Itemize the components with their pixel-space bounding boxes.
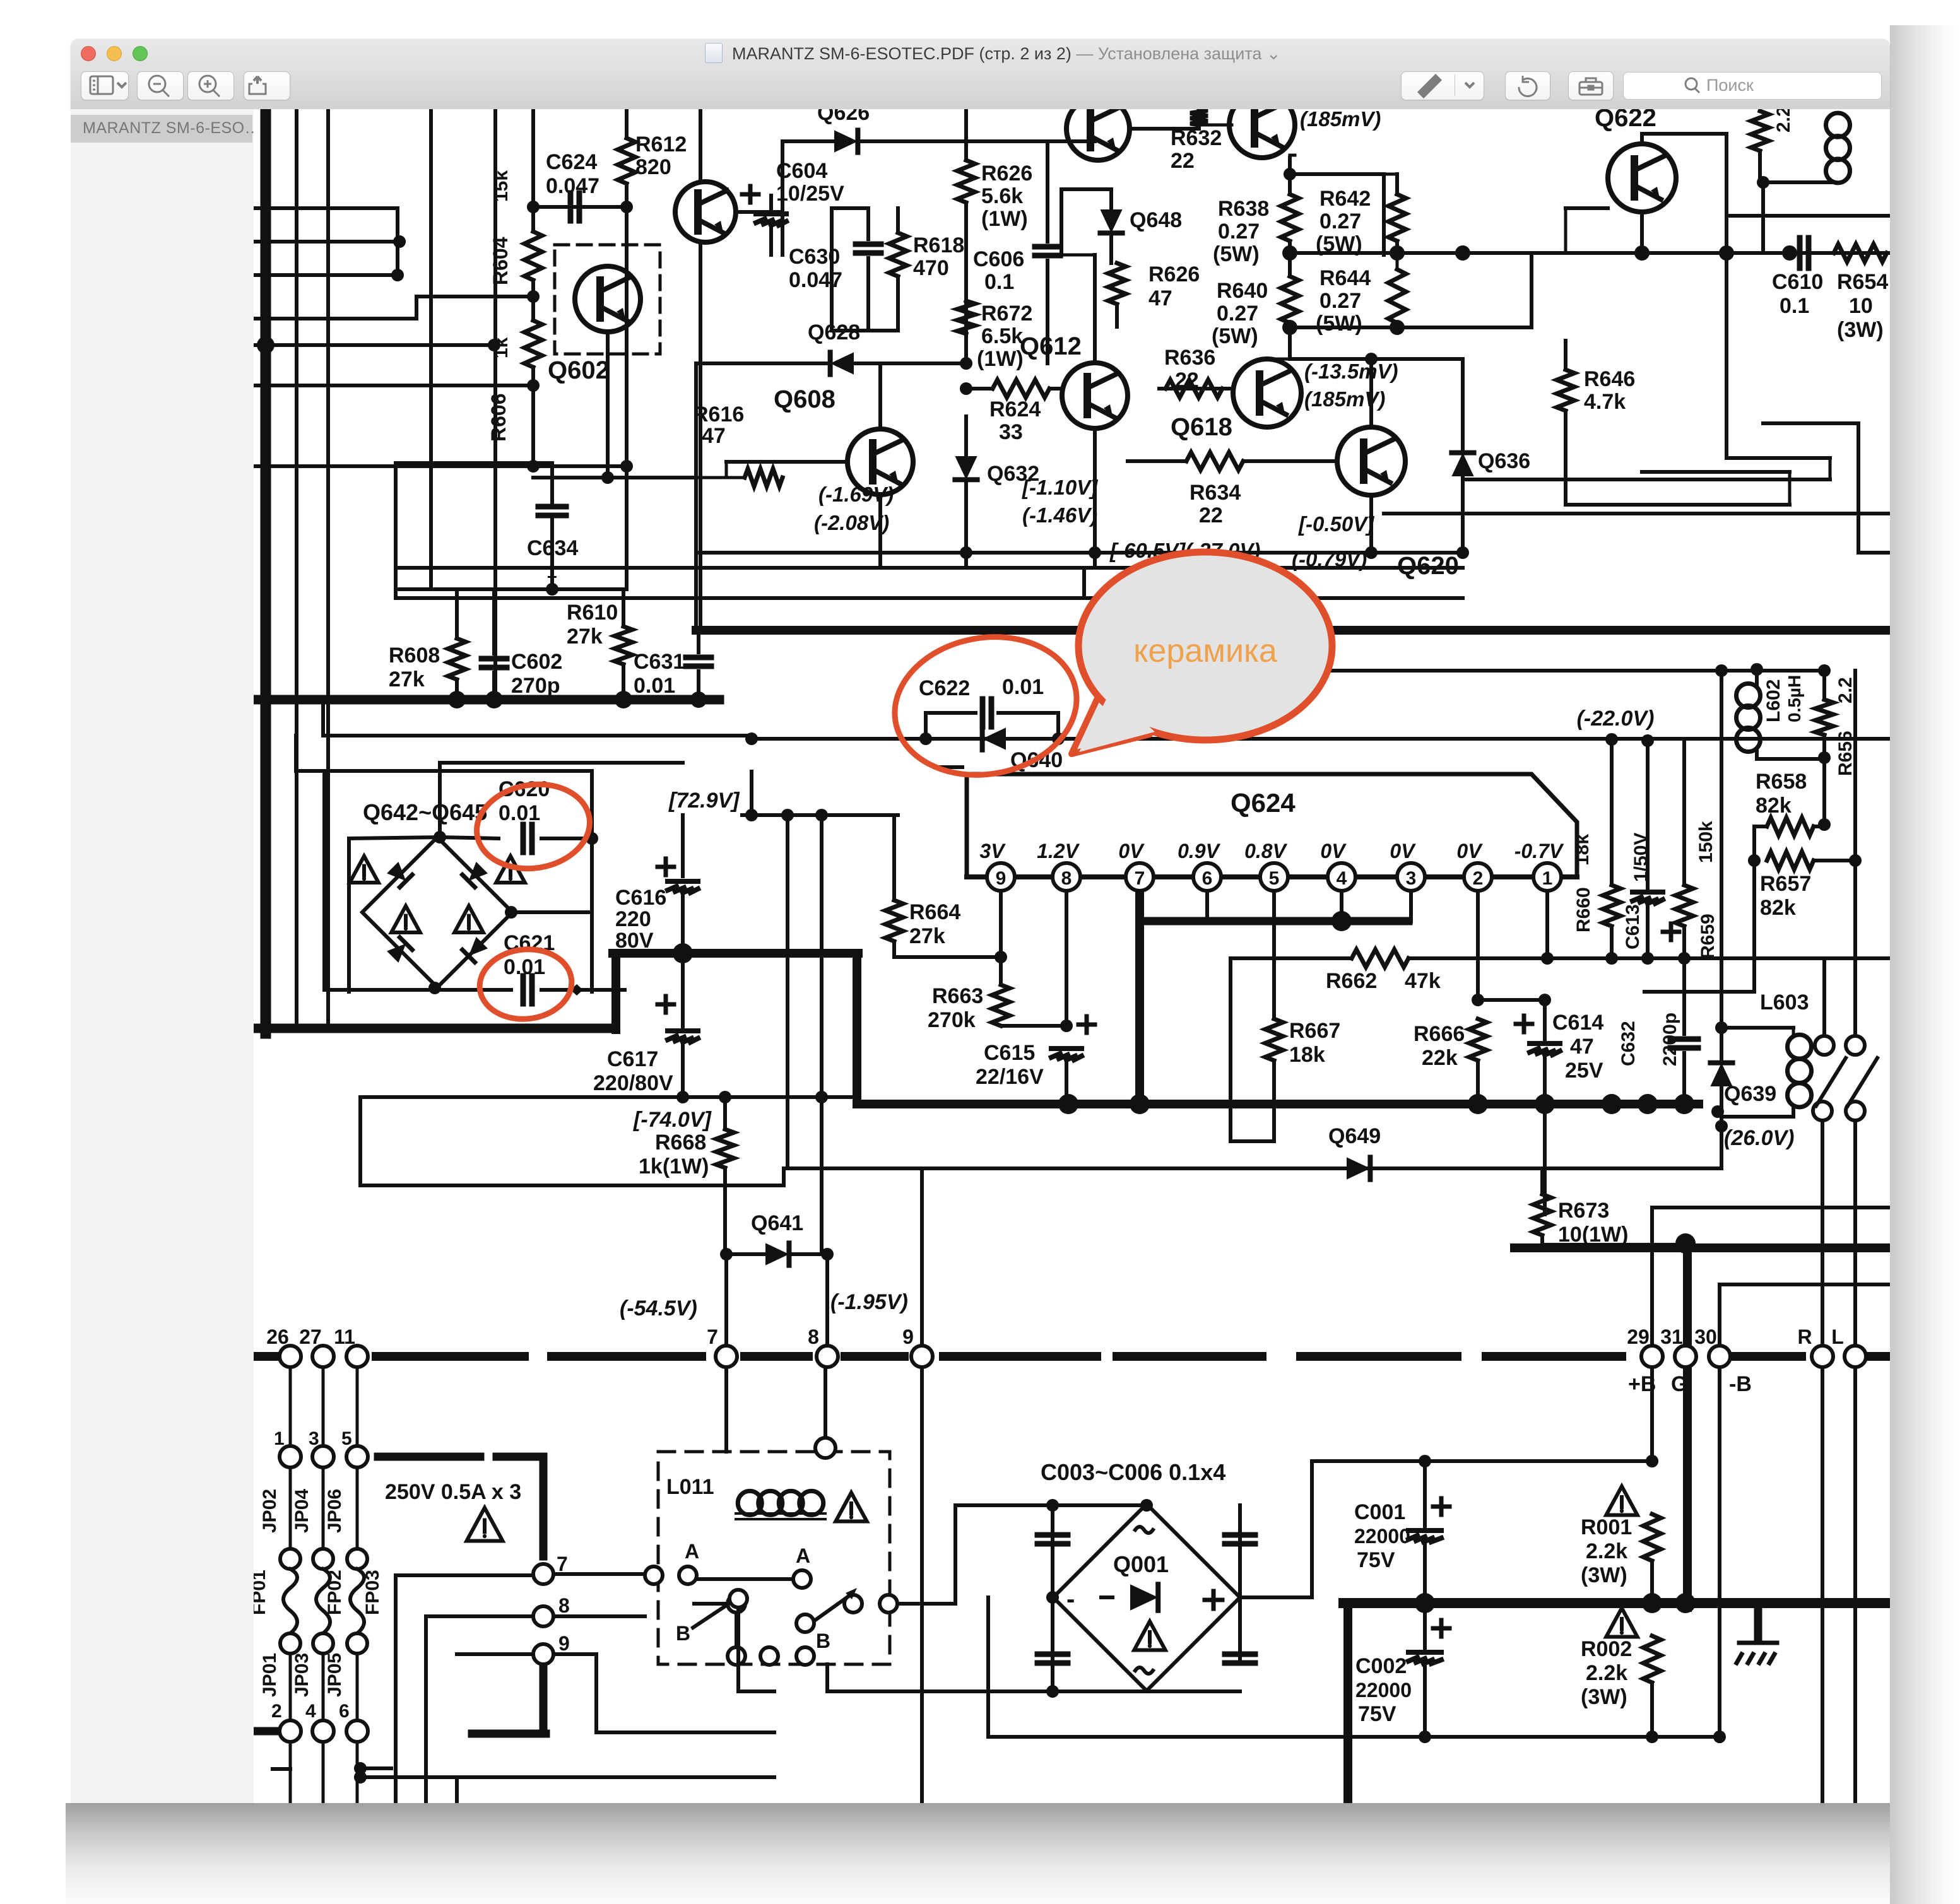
svg-text:47: 47 xyxy=(1148,286,1172,310)
wire Q632 top xyxy=(964,416,968,456)
svg-text:R642: R642 xyxy=(1319,187,1371,211)
wire pin8 down xyxy=(1065,891,1068,1026)
wire y948 xyxy=(396,596,1463,600)
wire R634 right xyxy=(1243,459,1337,463)
diode Q632 xyxy=(955,456,977,479)
svg-text:33: 33 xyxy=(999,420,1023,444)
capacitor C631 xyxy=(686,657,711,666)
wire C606 bottom xyxy=(1046,261,1049,363)
wire C604 top xyxy=(769,196,773,213)
svg-text:R672: R672 xyxy=(981,302,1032,326)
svg-text:-B: -B xyxy=(1729,1372,1752,1396)
svg-text:G: G xyxy=(1671,1372,1687,1396)
op-amp U1 Q624 hybrid IC xyxy=(967,774,1577,877)
wire Q632 bottom xyxy=(964,479,968,568)
svg-text:27k: 27k xyxy=(389,667,425,691)
pin 1 of Q624 xyxy=(1533,863,1561,891)
svg-text:Q649: Q649 xyxy=(1328,1124,1381,1148)
toolbar zoom-in button xyxy=(187,71,234,100)
svg-text:A: A xyxy=(685,1540,699,1563)
wire pin7 row xyxy=(396,1573,533,1577)
wire R668 bottom xyxy=(723,1168,727,1254)
svg-text:8: 8 xyxy=(558,1594,570,1617)
svg-text:[-1.10V]: [-1.10V] xyxy=(1022,476,1098,499)
svg-text:R626: R626 xyxy=(981,162,1032,185)
svg-text:(1W): (1W) xyxy=(981,207,1028,231)
wire v1566 xyxy=(986,1597,990,1737)
transistor Q602 xyxy=(555,245,660,354)
node connector pin 27 xyxy=(312,1346,334,1367)
svg-text:R657: R657 xyxy=(1760,872,1811,896)
wire C622 left xyxy=(926,711,976,715)
svg-text:Q636: Q636 xyxy=(1478,449,1530,473)
wire C006 col mid xyxy=(1238,1597,1242,1659)
wire R662 left xyxy=(1231,956,1352,960)
wire h1 drop xyxy=(396,208,399,275)
svg-text:(-1.46V): (-1.46V) xyxy=(1022,503,1097,527)
wire T1 collector xyxy=(699,109,702,182)
wire pin9 row right xyxy=(553,1652,596,1656)
svg-text:C001: C001 xyxy=(1354,1500,1405,1524)
wire v1682 xyxy=(1060,189,1063,255)
svg-text:4: 4 xyxy=(305,1701,316,1722)
svg-text:R638: R638 xyxy=(1218,197,1269,221)
wire C001 bottom xyxy=(1423,1542,1427,1603)
inductor L603 xyxy=(1788,1035,1812,1107)
svg-text:18k: 18k xyxy=(1572,834,1593,866)
capacitor C005 xyxy=(1037,1654,1068,1663)
minus lead xyxy=(1101,1595,1113,1599)
wire y1809 xyxy=(1231,1139,1274,1143)
wire v1514 xyxy=(953,1505,957,1604)
svg-text:C617: C617 xyxy=(607,1047,658,1071)
wire stub xyxy=(321,700,325,736)
traffic light close xyxy=(81,46,96,61)
wire C002 top xyxy=(1423,1603,1427,1648)
wire v627 xyxy=(394,463,398,598)
fuse FP x512 xyxy=(316,1569,330,1633)
wire pin4 down xyxy=(1340,891,1343,921)
wire y342 xyxy=(1727,214,1890,218)
wire R606 bottom xyxy=(531,367,535,466)
wire R634 left xyxy=(1128,459,1186,463)
wire R626b bottom xyxy=(1115,304,1119,327)
switch blade 1 xyxy=(1816,1058,1846,1106)
svg-text:C602: C602 xyxy=(511,650,562,674)
svg-text:27: 27 xyxy=(299,1325,322,1348)
resistor R656 xyxy=(1815,700,1833,735)
wire Q628 right xyxy=(854,361,966,365)
svg-text:0V: 0V xyxy=(1390,840,1416,862)
wire Q639 bottom xyxy=(1720,1082,1723,1126)
svg-text:-: - xyxy=(1066,1585,1075,1613)
node pin 8 lower xyxy=(533,1606,553,1626)
wire pin9L top xyxy=(920,1168,924,1346)
svg-text:8: 8 xyxy=(1061,868,1072,889)
svg-text:270k: 270k xyxy=(928,1008,976,1032)
svg-text:(5W): (5W) xyxy=(1213,242,1260,266)
svg-text:Q608: Q608 xyxy=(774,385,835,413)
minus mark xyxy=(939,765,962,769)
resistor R608 xyxy=(448,638,466,679)
pin 5 of Q624 xyxy=(1260,863,1288,891)
wire y524 xyxy=(832,329,898,332)
wire col x460 a xyxy=(289,1367,292,1446)
wire R666 bottom xyxy=(1476,1061,1480,1104)
wire y2817 long xyxy=(360,1775,774,1779)
svg-text:0.047: 0.047 xyxy=(546,174,599,198)
resistor R644 xyxy=(1388,269,1406,323)
pin 6 of Q624 xyxy=(1193,863,1221,891)
resistor R618 xyxy=(889,233,907,276)
wire C006 col top xyxy=(1238,1505,1242,1597)
wire C617 bottom xyxy=(681,1042,685,1097)
svg-text:5: 5 xyxy=(1269,868,1280,889)
wire Q628 left xyxy=(696,361,826,365)
capacitor C621 xyxy=(523,976,532,1004)
wire v724 low xyxy=(455,1777,459,1803)
wire swr bottom xyxy=(738,1690,774,1693)
switch blade left xyxy=(811,1596,849,1623)
wire R646 bottom xyxy=(1564,411,1567,505)
svg-text:R664: R664 xyxy=(909,900,960,924)
wire bridge out right xyxy=(1240,1595,1312,1599)
wire base runback xyxy=(254,317,416,320)
wire join left xyxy=(394,568,398,598)
wire sw2 down xyxy=(1853,1120,1857,1356)
diode Q636 xyxy=(1451,453,1473,476)
svg-text:A: A xyxy=(796,1544,810,1567)
wire jog xyxy=(750,736,753,739)
wire col x460 c xyxy=(289,1654,292,1720)
svg-text:R662: R662 xyxy=(1326,969,1377,993)
svg-text:47: 47 xyxy=(1570,1035,1594,1059)
transistor Q608 xyxy=(847,429,913,495)
wire thick bus mid-left horizontal xyxy=(254,695,719,705)
wire y1063 xyxy=(1111,669,1827,673)
wire R657 left xyxy=(1752,826,1756,861)
svg-text:Q642~Q645: Q642~Q645 xyxy=(363,799,487,825)
svg-text:22: 22 xyxy=(1175,368,1199,392)
wire thick bottom-mid horizontal xyxy=(857,1100,1699,1108)
wire R659 top xyxy=(1682,739,1686,885)
wire y2036 xyxy=(1720,1283,1890,1286)
wire R667 bottom xyxy=(1272,1061,1276,1141)
wire L603 bottom xyxy=(1792,1107,1795,1117)
pin 3 of Q624 xyxy=(1397,863,1425,891)
capacitor C604 xyxy=(756,214,786,225)
wire col x512 c xyxy=(322,1654,325,1720)
svg-text:R660: R660 xyxy=(1573,887,1594,932)
wire v2940 mid xyxy=(1853,861,1857,958)
wire Q626 right xyxy=(858,139,1048,143)
capacitor C002 xyxy=(1408,1652,1441,1664)
sidebar xyxy=(71,109,254,1803)
svg-text:R673: R673 xyxy=(1558,1199,1609,1223)
svg-text:R668: R668 xyxy=(655,1131,706,1155)
wire pin7L drop xyxy=(724,1367,728,1452)
svg-text:(-1.95V): (-1.95V) xyxy=(830,1290,908,1314)
svg-text:1.2V: 1.2V xyxy=(1037,840,1080,862)
wire v2728 xyxy=(1720,671,1723,1028)
svg-text:керамика: керамика xyxy=(1133,633,1277,669)
resistor R659 xyxy=(1675,885,1693,926)
svg-text:0V: 0V xyxy=(1320,840,1347,862)
wire thick left vertical bus xyxy=(261,109,271,1033)
resistor R632 xyxy=(1190,109,1208,125)
wire Q648 bottom xyxy=(1109,233,1113,263)
wire v627 low xyxy=(394,1575,398,1803)
svg-text:R624: R624 xyxy=(989,397,1041,421)
inductor L602 xyxy=(1737,684,1761,752)
macOS Preview title bar xyxy=(71,39,1890,110)
wire col x566 b xyxy=(356,1467,359,1549)
resistor R663 xyxy=(992,985,1010,1026)
svg-text:R663: R663 xyxy=(932,984,983,1008)
svg-text:(5W): (5W) xyxy=(1316,312,1362,336)
wire C622 right xyxy=(998,711,1058,715)
rectifier bridge Q642~Q645 xyxy=(362,837,512,987)
svg-text:0V: 0V xyxy=(1456,840,1483,862)
wire C634 bottom xyxy=(550,520,554,589)
wire v675 low xyxy=(424,1616,428,1803)
toolbar sidebar button xyxy=(81,71,129,100)
wire y1572 xyxy=(1644,990,1754,994)
wire Q608 emitter down xyxy=(878,495,882,568)
wire y2753 xyxy=(988,1735,1720,1739)
svg-text:(-2.08V): (-2.08V) xyxy=(814,511,889,534)
capacitor C004 xyxy=(1225,1535,1255,1544)
svg-text:0.1: 0.1 xyxy=(1780,294,1809,318)
resistor R634 xyxy=(1186,452,1243,470)
wire C002 bottom xyxy=(1423,1664,1427,1737)
wire vertical col2 xyxy=(326,109,330,1028)
capacitor C602 xyxy=(481,659,507,667)
wire bridge top left xyxy=(349,837,440,838)
svg-text:JP03: JP03 xyxy=(292,1653,312,1697)
wire Q608 collector xyxy=(878,363,882,429)
wire T2 right xyxy=(1130,127,1199,131)
svg-text:(5W): (5W) xyxy=(1316,232,1362,256)
svg-text:9: 9 xyxy=(558,1632,570,1655)
wire C621 out xyxy=(583,988,625,992)
svg-text:(3W): (3W) xyxy=(1837,318,1884,342)
svg-text:R632: R632 xyxy=(1171,126,1222,150)
transistor T3 top xyxy=(1229,92,1295,158)
svg-text:R610: R610 xyxy=(567,601,618,625)
resistor R666 xyxy=(1469,1019,1487,1061)
wire C630 top xyxy=(866,208,870,239)
dashed box L011 xyxy=(658,1452,890,1664)
svg-text:Q624: Q624 xyxy=(1231,788,1296,818)
switch blade 2 xyxy=(1848,1058,1877,1106)
resistor R640 xyxy=(1281,276,1299,323)
svg-text:2.2: 2.2 xyxy=(1835,677,1856,703)
annotation red ellipse around C620 xyxy=(471,777,596,877)
wire C622 right drop xyxy=(1056,713,1060,739)
wire sw2 top xyxy=(1853,958,1857,1036)
toolbar markup combo button xyxy=(1401,71,1484,100)
svg-text:75V: 75V xyxy=(1357,1548,1395,1572)
wire thick drop xyxy=(853,953,861,1104)
svg-text:C002: C002 xyxy=(1355,1654,1407,1678)
wire R001 bottom xyxy=(1650,1561,1654,1603)
wire L011 right down xyxy=(825,1664,829,1691)
wire v1950 xyxy=(1229,958,1232,1141)
core line1 xyxy=(736,1512,825,1515)
svg-text:(-0.79V): (-0.79V) xyxy=(1292,548,1367,571)
wire L603 top xyxy=(1721,1026,1793,1030)
svg-text:R666: R666 xyxy=(1414,1022,1465,1046)
wire y2681 xyxy=(827,1690,1240,1693)
wire thick ground bus xyxy=(1343,1598,1890,1608)
wire C631 bottom xyxy=(697,671,700,700)
wire R660 bottom xyxy=(1610,926,1614,958)
wire v2780 xyxy=(1752,861,1756,992)
svg-text:150k: 150k xyxy=(1696,821,1716,863)
wire jp stub2 xyxy=(360,1766,391,1770)
svg-text:0V: 0V xyxy=(1118,840,1145,862)
wire C602 top xyxy=(492,589,496,654)
wire v1302 xyxy=(820,815,824,1254)
diode inside Q001 xyxy=(1130,1584,1158,1611)
svg-text:[-0.50V]: [-0.50V] xyxy=(1298,512,1374,536)
wire Q612 collector xyxy=(1093,255,1097,363)
svg-text:C634: C634 xyxy=(527,536,578,560)
svg-text:R634: R634 xyxy=(1190,481,1241,505)
wire Q648 top xyxy=(1109,189,1113,209)
resistor R672 xyxy=(957,301,975,334)
wire C630 link xyxy=(832,206,868,210)
svg-text:[-74.0V]: [-74.0V] xyxy=(633,1108,712,1132)
window bottom drop shadow xyxy=(66,1803,1890,1904)
svg-text:Q612: Q612 xyxy=(1020,332,1082,360)
svg-text:0.5µH: 0.5µH xyxy=(1785,675,1804,722)
resistor R664 xyxy=(885,900,903,941)
toolbar icons svg overlay xyxy=(0,0,1960,126)
resistor R606 xyxy=(524,320,542,367)
wire y748 xyxy=(1642,470,1790,474)
wire C001 top xyxy=(1423,1461,1427,1526)
wire Q602 emitter xyxy=(606,332,610,478)
wire emitter row xyxy=(533,476,696,479)
wire h3 xyxy=(254,273,398,277)
svg-text:B: B xyxy=(816,1630,830,1652)
wire vertical col1 xyxy=(295,109,298,1028)
wire h4 xyxy=(254,343,494,347)
wire swr down xyxy=(736,1607,740,1691)
ground symbol xyxy=(1737,1643,1777,1663)
node connector pin R xyxy=(1812,1346,1833,1367)
svg-text:L011: L011 xyxy=(666,1475,714,1499)
wire h1 xyxy=(254,206,398,210)
wire step xyxy=(1727,456,1830,460)
wire jp stub xyxy=(273,1767,290,1771)
diode Q641 xyxy=(765,1243,789,1265)
node connector pin 9 xyxy=(911,1346,933,1367)
wire y934 xyxy=(431,587,627,591)
wire C632 top xyxy=(1682,958,1686,1034)
wire v2427 xyxy=(1530,255,1533,327)
wire R657 right xyxy=(1814,859,1855,862)
annotation red ellipse around C622/Q640 xyxy=(883,623,1087,789)
resistor R002 xyxy=(1643,1636,1661,1683)
svg-text:[72.9V]: [72.9V] xyxy=(668,789,740,813)
pin 2 of Q624 xyxy=(1464,863,1492,891)
capacitor C606 xyxy=(1035,247,1060,256)
wire Q612 emitter xyxy=(1093,428,1097,568)
wire R642 bottom xyxy=(1395,241,1399,253)
resistor R642 xyxy=(1388,194,1406,241)
wire L down xyxy=(1853,1367,1857,1803)
wire R624 right xyxy=(1049,387,1062,391)
wire C615 bottom xyxy=(1065,1060,1068,1104)
svg-text:2: 2 xyxy=(271,1701,282,1722)
inductor L601 xyxy=(1826,113,1850,183)
wire pin8L drop xyxy=(824,1367,827,1438)
wire R604-R606 link xyxy=(531,280,535,320)
node pin 7 lower xyxy=(533,1564,553,1584)
wire y900 xyxy=(396,566,1084,570)
wire col x512 a xyxy=(322,1367,325,1446)
svg-text:(-13.5mV): (-13.5mV) xyxy=(1304,360,1398,383)
capacitor C617 xyxy=(668,1031,698,1042)
wire y1914 xyxy=(1652,1206,1890,1209)
wire contact link xyxy=(735,1613,738,1647)
pin 8 of Q624 xyxy=(1053,863,1080,891)
svg-text:C606: C606 xyxy=(973,247,1024,271)
svg-text:R654: R654 xyxy=(1837,270,1888,294)
switch contact B left xyxy=(796,1614,814,1632)
svg-text:FP02: FP02 xyxy=(324,1570,345,1615)
svg-text:C631: C631 xyxy=(634,650,685,674)
node connector pin 26 xyxy=(280,1346,301,1367)
wire R658 left xyxy=(1754,825,1767,828)
wire step2 xyxy=(1763,421,1858,425)
wire Q636 top xyxy=(1461,359,1465,449)
wire h2 xyxy=(254,240,399,244)
svg-text:6.5k: 6.5k xyxy=(981,324,1023,348)
wire y2746 xyxy=(596,1731,774,1734)
switch contact mid left xyxy=(844,1595,862,1613)
wire col x512 b xyxy=(322,1467,325,1549)
svg-text:C604: C604 xyxy=(776,159,827,183)
svg-text:0.27: 0.27 xyxy=(1319,209,1361,233)
resistor R624 xyxy=(993,380,1049,397)
wire pin5 down xyxy=(1272,891,1276,1019)
svg-text:R608: R608 xyxy=(389,643,440,667)
wire v945 xyxy=(594,1654,598,1732)
svg-text:R612: R612 xyxy=(635,132,687,156)
svg-text:5: 5 xyxy=(341,1428,352,1449)
svg-text:1k(1W): 1k(1W) xyxy=(639,1155,709,1178)
diode Q640 xyxy=(983,727,1006,749)
wire y1739 xyxy=(360,1095,857,1099)
node connector pin 11 xyxy=(346,1346,368,1367)
wire v2193 xyxy=(1382,174,1386,255)
wire y519 xyxy=(1290,326,1532,329)
window title xyxy=(705,43,1281,64)
svg-text:(3W): (3W) xyxy=(1581,1685,1627,1709)
svg-text:FP03: FP03 xyxy=(362,1570,383,1615)
wire thick G vertical xyxy=(1683,1243,1692,1607)
wire v514 xyxy=(322,771,326,990)
svg-text:Q639: Q639 xyxy=(1724,1082,1776,1106)
svg-text:R636: R636 xyxy=(1164,346,1215,370)
svg-text:0.8V: 0.8V xyxy=(1244,840,1287,862)
svg-text:Q620: Q620 xyxy=(1397,552,1459,580)
wire v1103 xyxy=(694,363,698,630)
